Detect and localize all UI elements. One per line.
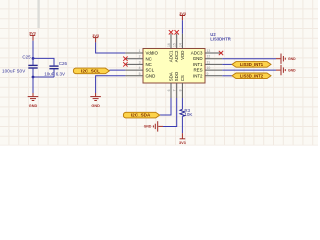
svg-text:16: 16 (167, 43, 171, 47)
wire pin 12 to GND (right) (222, 58, 276, 60)
svg-text:5: 5 (139, 72, 141, 76)
svg-text:C25: C25 (22, 55, 31, 60)
svg-text:7: 7 (173, 89, 177, 91)
wire C26 bottom branch (33, 76, 54, 78)
svg-text:9: 9 (207, 72, 209, 76)
svg-text:RES: RES (193, 68, 202, 73)
white margin bottom (0, 146, 320, 148)
svg-text:6.3V: 6.3V (56, 71, 65, 76)
svg-text:1: 1 (139, 49, 141, 53)
svg-text:3V3: 3V3 (179, 141, 186, 145)
ground (SDO, horizontal) (153, 121, 163, 131)
svg-text:LIS3D_INT1: LIS3D_INT1 (240, 62, 264, 67)
no-connect X pin 13 (219, 51, 223, 55)
wire CS pin to R3 (181, 98, 183, 109)
wire 3V3 to VDD pin (181, 20, 183, 34)
wire R3 to 3V3 (down) (181, 116, 183, 133)
svg-text:2: 2 (139, 55, 141, 59)
svg-text:10K: 10K (184, 112, 192, 117)
svg-text:SDO: SDO (174, 71, 179, 81)
wire C25 to GND (32, 77, 34, 93)
svg-text:ADC2: ADC2 (174, 50, 179, 62)
wire pin 5 to GND (96, 76, 126, 93)
bottom pins 6,7,8 (171, 83, 182, 98)
wire SDA pin to port (160, 98, 171, 115)
svg-text:I2C_SDA: I2C_SDA (131, 113, 151, 118)
wire 3V3 to C25 (32, 41, 34, 59)
right pins 13,12,11,10,9 (205, 53, 222, 76)
IC U2 body (143, 49, 205, 84)
right pin numbers (207, 49, 211, 76)
left pins 1-5 (125, 53, 143, 76)
svg-text:100uF 50V: 100uF 50V (2, 69, 25, 74)
wire pin 10 to GND (right) (222, 69, 276, 71)
svg-text:SCL: SCL (146, 68, 155, 73)
svg-text:GND: GND (193, 56, 203, 61)
svg-text:12: 12 (207, 55, 211, 59)
svg-text:VDD: VDD (180, 51, 185, 60)
wire pin 9 to port INT2 (222, 75, 232, 77)
svg-text:CS: CS (180, 75, 185, 81)
svg-text:10uF: 10uF (44, 71, 55, 76)
ground (pin 12, horizontal) (276, 54, 285, 64)
svg-text:VddIO: VddIO (146, 51, 159, 56)
sheet partition line (37, 0, 39, 28)
top pin names (rotated) (169, 50, 185, 62)
left pin names (146, 51, 159, 79)
svg-text:INT2: INT2 (193, 73, 203, 78)
svg-text:NC: NC (146, 62, 152, 67)
node junction C25 top (32, 57, 35, 60)
svg-text:I2C_SCL: I2C_SCL (81, 69, 100, 74)
svg-text:LIS3D_INT2: LIS3D_INT2 (240, 73, 264, 78)
power port 3V3 (above VDD pin) (179, 12, 186, 20)
no-connect X pin 15 (175, 30, 179, 34)
svg-text:15: 15 (173, 43, 177, 47)
port LIS3D_INT1 (232, 62, 271, 68)
node junction C25 bottom (32, 76, 35, 79)
svg-text:GND: GND (288, 68, 296, 72)
capacitor C26 (44, 61, 67, 77)
svg-text:ADC1: ADC1 (169, 50, 174, 62)
wire pin 11 to port INT1 (222, 63, 232, 65)
white margin right (318, 0, 320, 147)
port I2C_SDA (123, 112, 159, 118)
port LIS3D_INT2 (232, 73, 271, 79)
svg-text:ADC3: ADC3 (191, 51, 203, 56)
no-connect X pin 2 (123, 57, 127, 61)
no-connect X pin 16 (169, 30, 173, 34)
no-connect X pin 3 (123, 62, 127, 66)
svg-text:GND: GND (146, 73, 156, 78)
ground (pin 5 GND) (90, 93, 101, 101)
svg-text:8: 8 (178, 89, 182, 91)
svg-text:10: 10 (207, 66, 211, 70)
sheet background (0, 0, 320, 147)
bottom pin names (rotated) (169, 71, 185, 81)
svg-text:GND: GND (288, 57, 296, 61)
svg-text:LIS3DHTR: LIS3DHTR (210, 37, 230, 42)
svg-text:11: 11 (207, 60, 211, 64)
svg-text:GND: GND (144, 125, 152, 129)
capacitor C25 (2, 55, 38, 78)
svg-text:6: 6 (167, 89, 171, 91)
power port 3V3 (above pin 1 column) (92, 34, 99, 43)
svg-text:GND: GND (91, 104, 100, 108)
port I2C_SCL (73, 68, 109, 74)
svg-text:INT1: INT1 (193, 62, 203, 67)
svg-text:4: 4 (139, 66, 141, 70)
resistor R3 (180, 109, 185, 116)
svg-text:GND: GND (29, 104, 38, 108)
ground (pin 10, horizontal) (276, 65, 285, 75)
wire 3V3 to pin 1 (96, 42, 126, 53)
bottom pin numbers (167, 89, 182, 91)
wire branch to C26 top (33, 58, 54, 65)
top pin numbers (167, 43, 182, 47)
svg-text:NC: NC (146, 56, 152, 61)
svg-text:C26: C26 (59, 61, 68, 66)
svg-text:3: 3 (139, 60, 141, 64)
svg-text:SDA: SDA (169, 72, 174, 81)
power port 3V3 (left, above C25) (29, 32, 36, 41)
wire SCL port to pin 4 (109, 69, 125, 71)
power port 3V3 (bottom, inverted) (179, 133, 186, 145)
svg-text:13: 13 (207, 49, 211, 53)
top pins 16,15,14 (171, 34, 182, 49)
ground (under C25) (28, 93, 39, 101)
svg-text:14: 14 (178, 43, 182, 47)
right pin names (191, 51, 203, 79)
left pin numbers (139, 49, 141, 76)
wire SDO pin to GND (163, 98, 177, 127)
